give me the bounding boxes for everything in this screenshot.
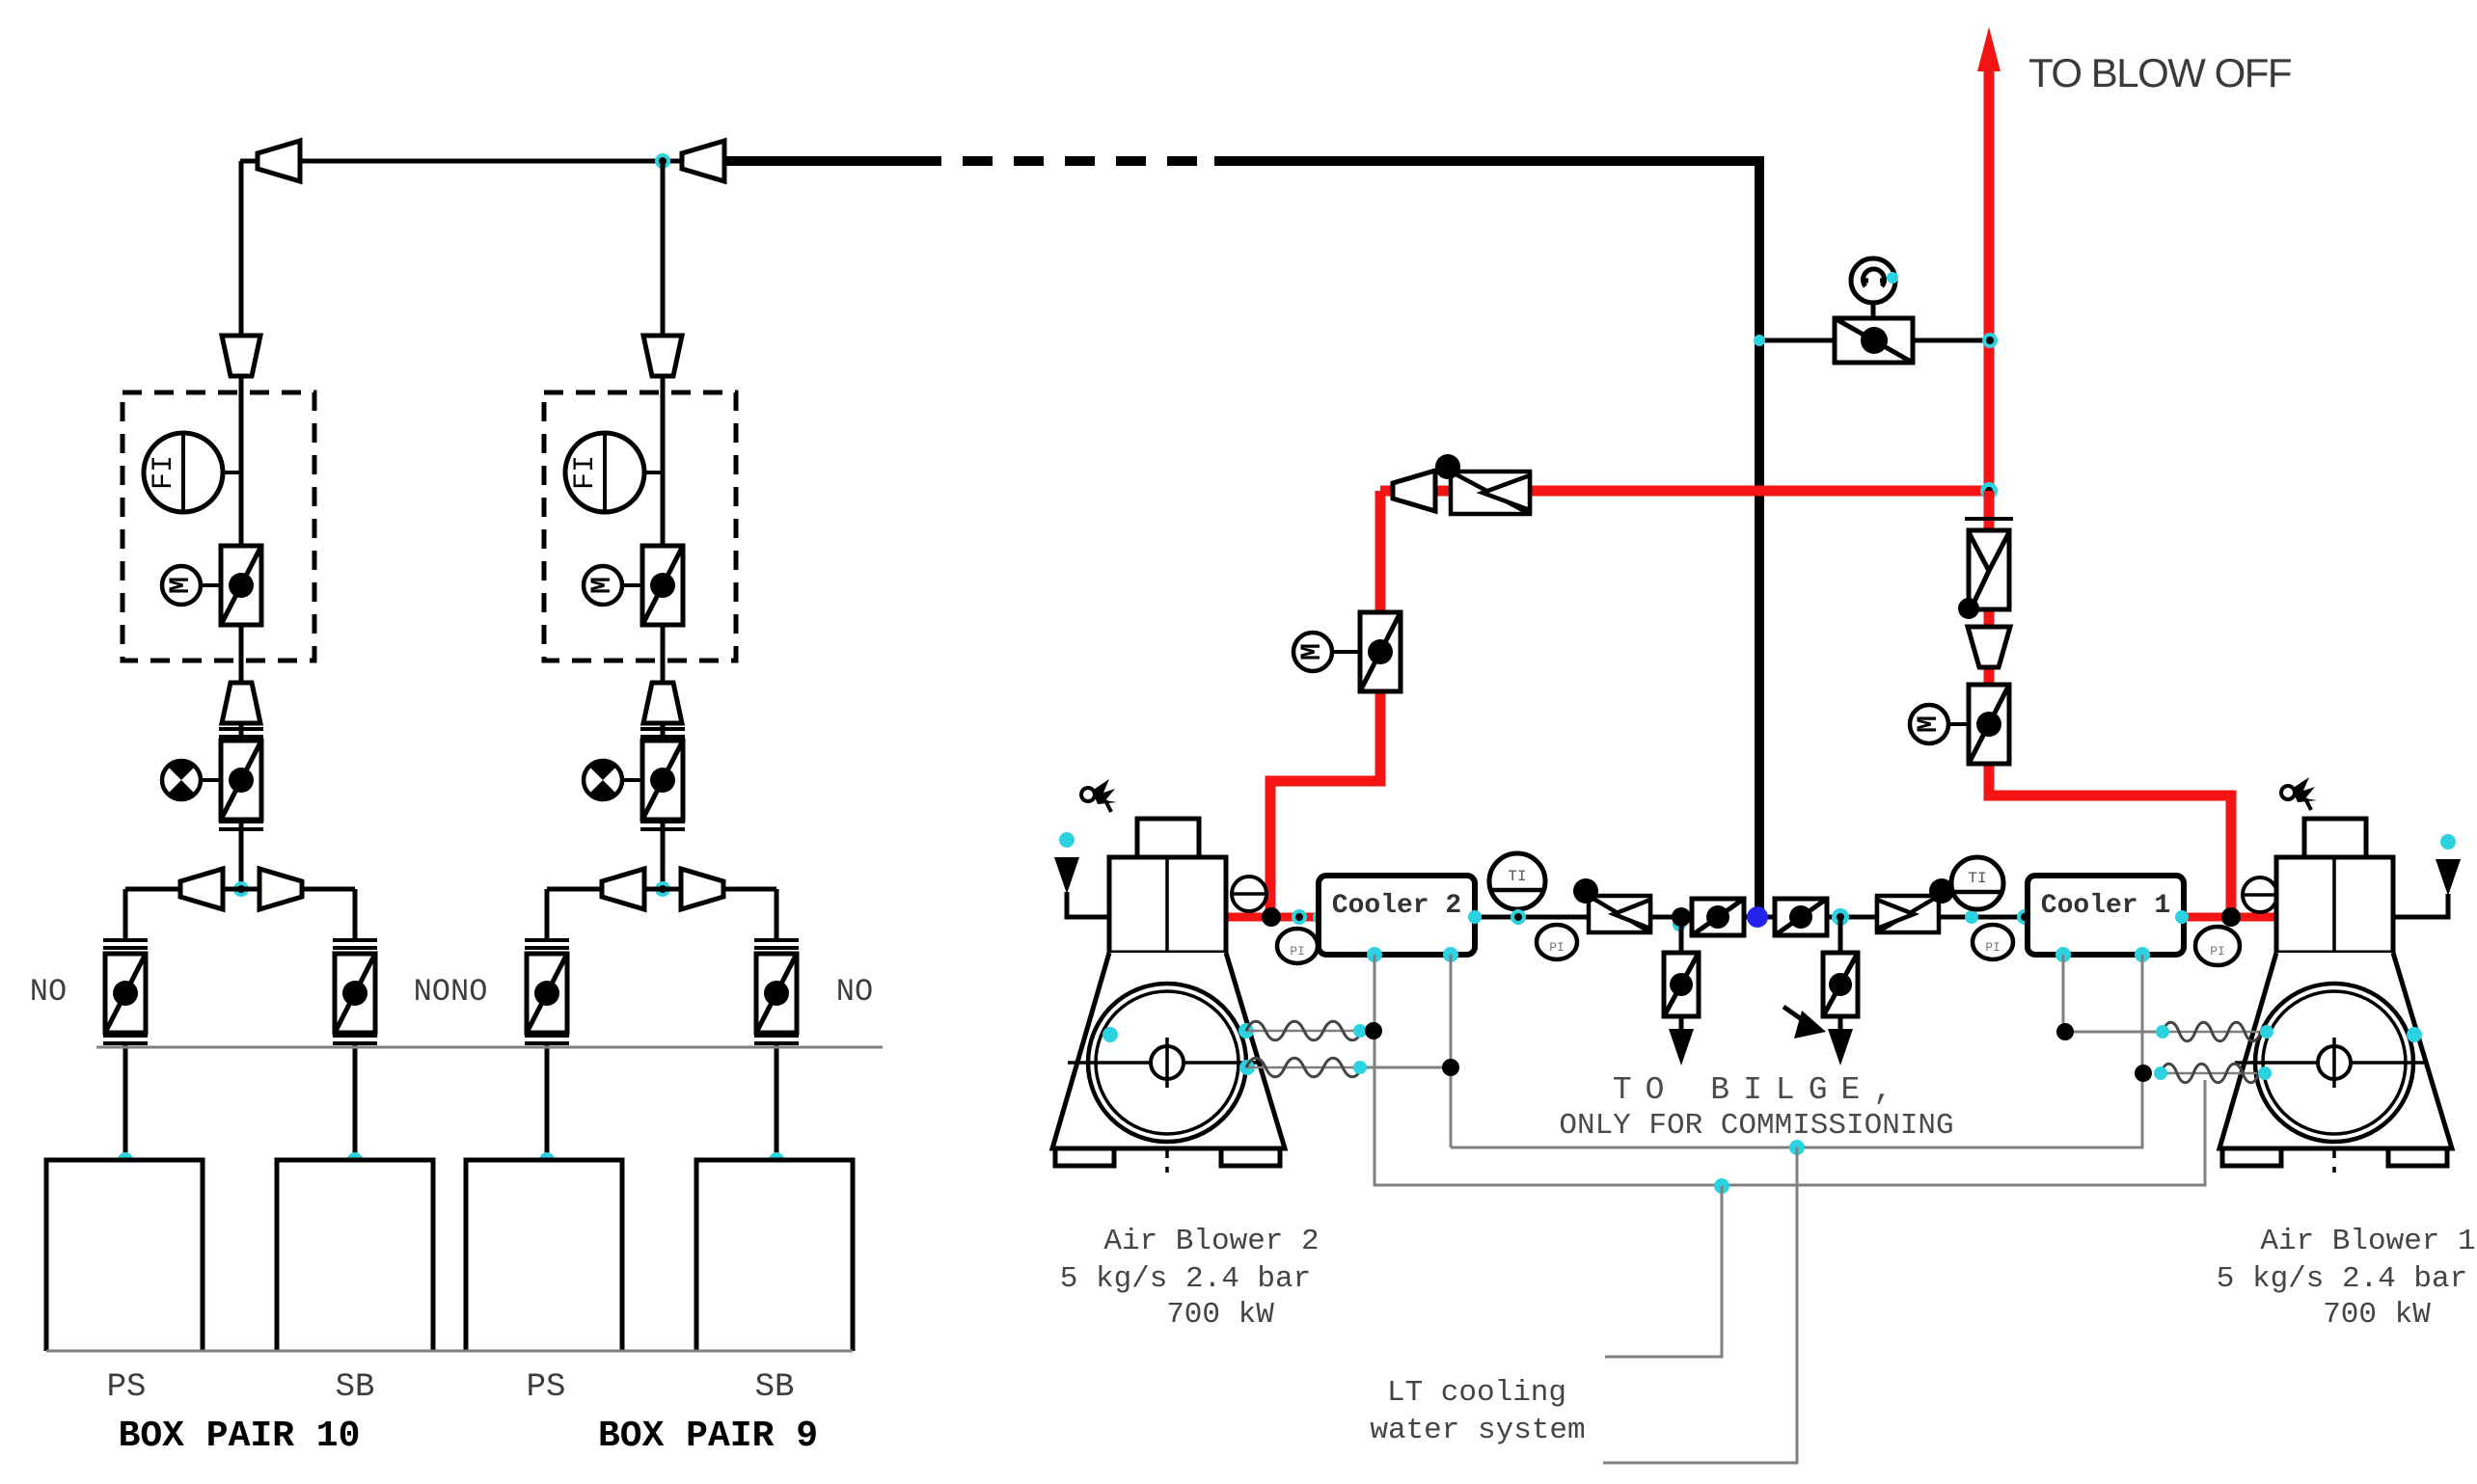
node cooler1 bottom stub2 (2135, 947, 2150, 962)
instrument stub FI branch10 (222, 471, 241, 474)
wire branch10 vertical drop (239, 161, 244, 889)
motor valve branch9 (642, 546, 683, 625)
crossover valve with ball (1435, 454, 1530, 514)
flex connector blower2 lower (1246, 1058, 1362, 1077)
node wave b1u black (2056, 1023, 2074, 1040)
svg-text:LT cooling: LT cooling (1387, 1376, 1566, 1410)
isolating bowtie valve cooler1 side (1877, 878, 1954, 932)
node blower2 circle left (1102, 1027, 1118, 1042)
split arrow left branch10 (180, 869, 223, 909)
node wave b1u right cyan (2260, 1025, 2273, 1039)
quadrant instrument branch9 (584, 761, 622, 799)
node relief line left end (1754, 335, 1765, 346)
node split junction branch10 (233, 881, 249, 897)
wire drain right to arrow (1838, 1016, 1843, 1030)
wire drain left to arrow (1679, 1016, 1684, 1030)
gate valve right of center (1775, 899, 1827, 935)
svg-text:FI: FI (148, 455, 180, 490)
reducer funnel up branch9 (643, 683, 682, 723)
svg-text:700 kW: 700 kW (1166, 1298, 1274, 1332)
node cooler1 bottom stub1 (2055, 947, 2071, 962)
svg-text:PI: PI (2210, 944, 2225, 958)
reducer funnel up branch10 (222, 683, 260, 723)
wire top header thin segment from branch1 elbow to junction (240, 159, 663, 164)
wire top header thick solid segment (721, 156, 912, 166)
tank box SB at x=287 (277, 1160, 433, 1351)
reducer funnel on riser (1968, 627, 2010, 667)
NO valve PS branch9 (527, 954, 567, 1033)
stub M to valve branch9 (622, 583, 642, 587)
svg-text:FI: FI (569, 455, 602, 490)
flange tick below junction (1965, 517, 2013, 521)
node drain tee left (1672, 907, 1691, 927)
node junction branch9 riser / header (655, 153, 670, 169)
wire gray base line under boxes (46, 1350, 853, 1353)
node wave b2l black (1442, 1059, 1459, 1076)
motor valve left leg (1360, 612, 1401, 691)
wire gray reference line left section (96, 1046, 883, 1049)
node wave b2u cyan (1353, 1024, 1367, 1038)
node below TI cooler1 (2017, 909, 2032, 925)
tank box PS at x=483 (466, 1160, 622, 1351)
wire drain left drop (1679, 917, 1684, 955)
node blower2 discharge junction (1262, 907, 1281, 927)
wire left leg to box branch9 (545, 1044, 550, 1160)
TI gauge cooler2 outlet (1489, 853, 1545, 909)
node crossover/riser junction (1980, 482, 1998, 499)
svg-text:TO BILGE,: TO BILGE, (1613, 1072, 1906, 1108)
flange bottom left NO valve branch10 (103, 1036, 148, 1043)
PI gauge blower1 side (2195, 927, 2240, 965)
gauge circle blower1 suction (2243, 877, 2277, 912)
svg-text:PS: PS (527, 1369, 566, 1406)
node drain tee right (1832, 908, 1849, 926)
red pipe blower2 discharge (1226, 913, 1319, 922)
self acting controller circle (1851, 258, 1895, 303)
wire left leg down branch10 (123, 889, 128, 940)
flange pair lower branch10 (219, 822, 263, 829)
flow arrow A2 pointing left on header (682, 141, 724, 181)
node below TI cooler2 (1511, 909, 1526, 925)
motor circle M branch10 (162, 566, 201, 605)
svg-text:Cooler 2: Cooler 2 (1332, 891, 1461, 921)
red pipe blower2 riser base (1266, 906, 1275, 917)
node box PS inlet branch10 (118, 1152, 133, 1168)
wire blower1 suction (2395, 894, 2448, 917)
split arrow right branch9 (681, 869, 723, 909)
node relief line right end (1982, 333, 1998, 348)
svg-text:NO: NO (836, 974, 873, 1010)
svg-text:Cooler 1: Cooler 1 (2041, 891, 2170, 921)
wire branch9 vertical drop (661, 161, 666, 889)
flange top left NO valve branch9 (525, 940, 569, 948)
wire top header thick dashed segment (912, 156, 1217, 166)
svg-text:M: M (1296, 643, 1329, 661)
bird vent icon blower2 (1081, 779, 1117, 812)
tank box PS at x=48 (46, 1160, 203, 1351)
node wave b1u cyan (2156, 1025, 2169, 1039)
svg-text:700 kW: 700 kW (2323, 1298, 2431, 1332)
node blower1 circle right (2407, 1027, 2422, 1042)
NO valve SB branch9 (756, 954, 797, 1033)
pipe manifold cooler2 to main junction (1475, 915, 1759, 920)
node upper header tap (1789, 1140, 1805, 1155)
flange bottom left NO valve branch9 (525, 1036, 569, 1043)
node red junction blower1 side (2221, 907, 2241, 927)
drain arrow right (1828, 1029, 1853, 1066)
air blower 2 machine (1052, 817, 1285, 1180)
wire right leg down branch10 (353, 889, 358, 940)
svg-text:Air Blower 1: Air Blower 1 (2260, 1225, 2475, 1258)
PI gauge cooler2 outlet (1537, 925, 1577, 959)
reducer funnel down branch9 (643, 336, 682, 376)
svg-text:BOX PAIR 9: BOX PAIR 9 (598, 1416, 818, 1457)
flange top right NO valve branch10 (333, 940, 377, 948)
svg-text:TO BLOW OFF: TO BLOW OFF (2028, 50, 2291, 95)
gray pipe cooler1 stub1 down (2062, 955, 2065, 1032)
node cooler2 bottom stub2 (1443, 947, 1458, 962)
angle valve on riser (1958, 530, 2009, 619)
gray pipe blower1 upper wave line (2065, 1031, 2163, 1034)
svg-text:NO: NO (30, 974, 67, 1010)
gauge circle blower2 discharge (1232, 877, 1266, 911)
cooler 2 box (1319, 876, 1475, 955)
wire relief line y=353 (1759, 338, 1989, 343)
gray pipe wave2 to stub2 (1362, 1066, 1451, 1069)
isolating bowtie valve cooler2 side (1573, 878, 1650, 932)
shutoff valve branch10 (221, 741, 261, 820)
svg-text:NONO: NONO (414, 974, 488, 1010)
suction arrow blower2 (1054, 857, 1079, 894)
gray pipe LT supply leg (1605, 1186, 1722, 1357)
wire split horizontal branch9 (547, 887, 776, 892)
svg-text:BOX PAIR 10: BOX PAIR 10 (119, 1416, 361, 1457)
wire right leg to box branch10 (353, 1044, 358, 1160)
stub gauge to valve branch10 (201, 778, 221, 782)
svg-text:TI: TI (1968, 870, 1986, 887)
node blower2 suction (1059, 832, 1075, 848)
PI gauge cooler2 inlet (1277, 929, 1318, 963)
flex connector blower1 lower (2161, 1064, 2259, 1083)
gray pipe cooler2 stub2 down (1450, 955, 1453, 1147)
node manifold dot a (1292, 909, 1307, 925)
flow indicator FI branch10 (144, 433, 223, 512)
drain valve right (1823, 953, 1858, 1016)
flange top right NO valve branch9 (754, 940, 799, 948)
wire left leg down branch9 (545, 889, 550, 940)
flex connector blower2 upper (1246, 1021, 1362, 1040)
wire right leg to box branch9 (775, 1044, 779, 1160)
gray pipe cooler2 stub1 down (1374, 955, 1376, 1031)
node split junction branch9 (655, 881, 670, 897)
svg-text:M: M (1913, 715, 1946, 733)
red pipe crossover y=509 (1380, 486, 1989, 497)
stub controller circle to relief valve (1871, 303, 1876, 320)
stub gauge to valve branch9 (622, 778, 642, 782)
locked-closed arrow marker right drain (1783, 1007, 1826, 1039)
node box SB inlet branch9 (769, 1152, 784, 1168)
shutoff valve branch9 (642, 741, 683, 820)
svg-text:SB: SB (755, 1369, 795, 1406)
node cooler2 outlet (1468, 910, 1482, 924)
red pipe cooler1 to blower1 (2182, 913, 2276, 922)
stub M circle left leg (1332, 650, 1360, 654)
wire blower2 suction (1067, 892, 1109, 917)
wire top header thick segment to corner (1214, 161, 1759, 241)
flow arrow A1 pointing left on header (258, 141, 300, 181)
relief valve on y=353 (1835, 318, 1913, 363)
node drain tee left cyan (1673, 918, 1686, 931)
wire left leg to box branch10 (123, 1044, 128, 1160)
split arrow right branch10 (259, 869, 302, 909)
node cooler2 bottom stub1 (1367, 947, 1382, 962)
svg-text:PI: PI (1290, 944, 1305, 958)
TI gauge cooler1 inlet (1951, 857, 2003, 909)
flange pair upper branch9 (640, 729, 685, 737)
svg-text:PI: PI (1985, 940, 2001, 955)
gray pipe upper header (1451, 955, 2142, 1147)
NO valve PS branch10 (105, 954, 146, 1033)
gray pipe cooler2 stub1 to lower header (1375, 1031, 2205, 1185)
node box PS inlet branch9 (539, 1152, 555, 1168)
red arrow to blow off (1977, 27, 2001, 71)
svg-text:5 kg/s 2.4 bar: 5 kg/s 2.4 bar (1060, 1262, 1311, 1296)
node blower2 circle right lower (1239, 1060, 1255, 1075)
red pipe left leg (1270, 491, 1380, 913)
pipe manifold main junction to cooler1 (1759, 915, 2028, 920)
red pipe blow-off riser (1984, 56, 1995, 491)
wire drain right drop (1838, 917, 1843, 955)
reducer on crossover pointing left (1393, 471, 1435, 511)
svg-text:5 kg/s 2.4 bar: 5 kg/s 2.4 bar (2217, 1262, 2467, 1296)
node manifold dot b (1313, 909, 1328, 925)
flex connector blower1 upper (2163, 1022, 2261, 1041)
svg-text:Air Blower 2: Air Blower 2 (1103, 1225, 1319, 1258)
red pipe riser lower section (1989, 491, 2231, 917)
motor circle M branch9 (584, 566, 622, 605)
motor circle left leg valve (1293, 633, 1332, 671)
node wave b2l cyan (1353, 1061, 1367, 1074)
wire split horizontal branch10 (125, 887, 355, 892)
node wave b1l black (2135, 1065, 2152, 1082)
reducer funnel down branch10 (222, 336, 260, 376)
node box SB inlet branch10 (347, 1152, 363, 1168)
node wave b1l right cyan (2258, 1066, 2272, 1080)
drain valve left (1664, 953, 1699, 1016)
flange bottom right NO valve branch9 (754, 1036, 799, 1043)
gray pipe LT return leg (1603, 1147, 1797, 1463)
tank box SB at x=722 (696, 1160, 853, 1351)
wire top header thin segment junction to arrow2 (663, 159, 687, 164)
dashed instrument box branch10 (122, 392, 314, 661)
flange pair lower branch9 (640, 822, 685, 829)
node manifold dot c (1965, 910, 1978, 924)
node controller tick (1887, 272, 1898, 283)
drain arrow left (1669, 1029, 1694, 1066)
motor valve on riser (1969, 685, 2009, 764)
gate valve left of center (1692, 899, 1744, 935)
node wave b1l cyan (2154, 1066, 2167, 1080)
flange top left NO valve branch10 (103, 940, 148, 948)
svg-text:M: M (165, 577, 198, 594)
svg-text:TI: TI (1508, 868, 1526, 885)
wire right leg down branch9 (775, 889, 779, 940)
node main junction blue dot (1747, 906, 1768, 928)
wire thick vertical main air line x=1824 (1755, 161, 1764, 917)
node lower header tap (1714, 1178, 1729, 1194)
flange pair upper branch10 (219, 729, 263, 737)
node cooler1 outlet (2175, 910, 2189, 924)
quadrant instrument branch10 (162, 761, 201, 799)
svg-text:PS: PS (107, 1369, 147, 1406)
node wave b2u black (1365, 1022, 1382, 1039)
PI gauge cooler1 inlet (1973, 925, 2013, 959)
suction arrow blower1 (2436, 859, 2461, 896)
svg-text:PI: PI (1549, 940, 1565, 955)
motor valve branch10 (221, 546, 261, 625)
split arrow left branch9 (602, 869, 644, 909)
svg-text:water system: water system (1370, 1414, 1585, 1447)
NO valve SB branch10 (335, 954, 375, 1033)
air blower 1 machine (2219, 817, 2452, 1180)
node blower2 circle right upper (1238, 1023, 1254, 1039)
flow indicator FI branch9 (565, 433, 644, 512)
svg-text:ONLY FOR COMMISSIONING: ONLY FOR COMMISSIONING (1559, 1109, 1953, 1143)
cooler 1 box (2028, 876, 2184, 955)
motor circle riser valve (1910, 705, 1948, 743)
flange bottom right NO valve branch10 (333, 1036, 377, 1043)
node blower1 suction (2440, 834, 2456, 850)
dashed instrument box branch9 (544, 392, 736, 661)
svg-text:M: M (586, 577, 619, 594)
svg-text:SB: SB (336, 1369, 375, 1406)
stub M to valve branch10 (201, 583, 221, 587)
instrument stub FI branch9 (643, 471, 663, 474)
bird vent icon blower1 (2281, 777, 2317, 810)
stub M circle riser valve (1948, 722, 1969, 726)
